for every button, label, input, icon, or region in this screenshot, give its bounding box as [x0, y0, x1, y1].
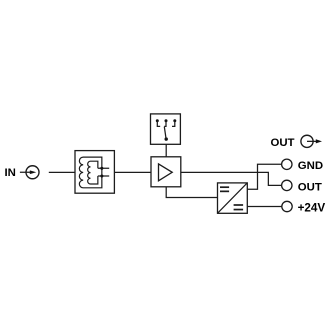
DC/DC converter U1 box — [218, 183, 248, 213]
switch S1 pole and lever — [164, 127, 168, 141]
switch S1 box — [151, 114, 181, 144]
transformer T1 box — [75, 151, 114, 194]
terminal IN circle with arrow — [20, 166, 39, 179]
wire A1 output to terminal OUT — [181, 172, 281, 185]
svg-text:+24V: +24V — [298, 201, 326, 214]
svg-text:IN: IN — [4, 167, 15, 179]
amplifier A1 box — [151, 157, 181, 187]
DC/DC converter U1 DC symbol top — [220, 187, 229, 191]
wire U1 to terminal +24V — [247, 206, 282, 208]
DC/DC converter U1 DC symbol bottom — [234, 205, 244, 210]
terminal OUT signal circle with arrow — [301, 135, 322, 147]
svg-text:OUT: OUT — [298, 181, 322, 193]
switch S1 right contact — [172, 119, 176, 126]
transformer T1 secondary winding — [88, 161, 98, 184]
transformer T1 primary winding — [79, 157, 101, 188]
amplifier A1 triangle — [159, 164, 173, 181]
wire IN to transformer T1 — [49, 171, 75, 173]
terminal GND circle — [282, 159, 292, 169]
transformer T1 bottom lead — [98, 175, 109, 177]
terminal OUT circle — [282, 180, 292, 190]
wire A1 to DC/DC converter U1 — [166, 187, 217, 198]
svg-text:OUT: OUT — [270, 137, 294, 149]
transformer T1 top lead — [98, 167, 109, 169]
junction dot bottom lead — [100, 174, 103, 177]
junction dot top lead — [100, 167, 103, 170]
svg-text:GND: GND — [298, 160, 323, 172]
switch S1 left contact — [156, 119, 160, 126]
wire U1 to terminal GND — [247, 164, 281, 189]
wire T1 to amplifier A1 — [114, 171, 151, 173]
wire S1 to amplifier A1 — [165, 144, 167, 157]
terminal +24V circle — [282, 201, 292, 211]
DC/DC converter U1 diagonal — [218, 183, 247, 213]
switch S1 center contact — [164, 119, 167, 126]
